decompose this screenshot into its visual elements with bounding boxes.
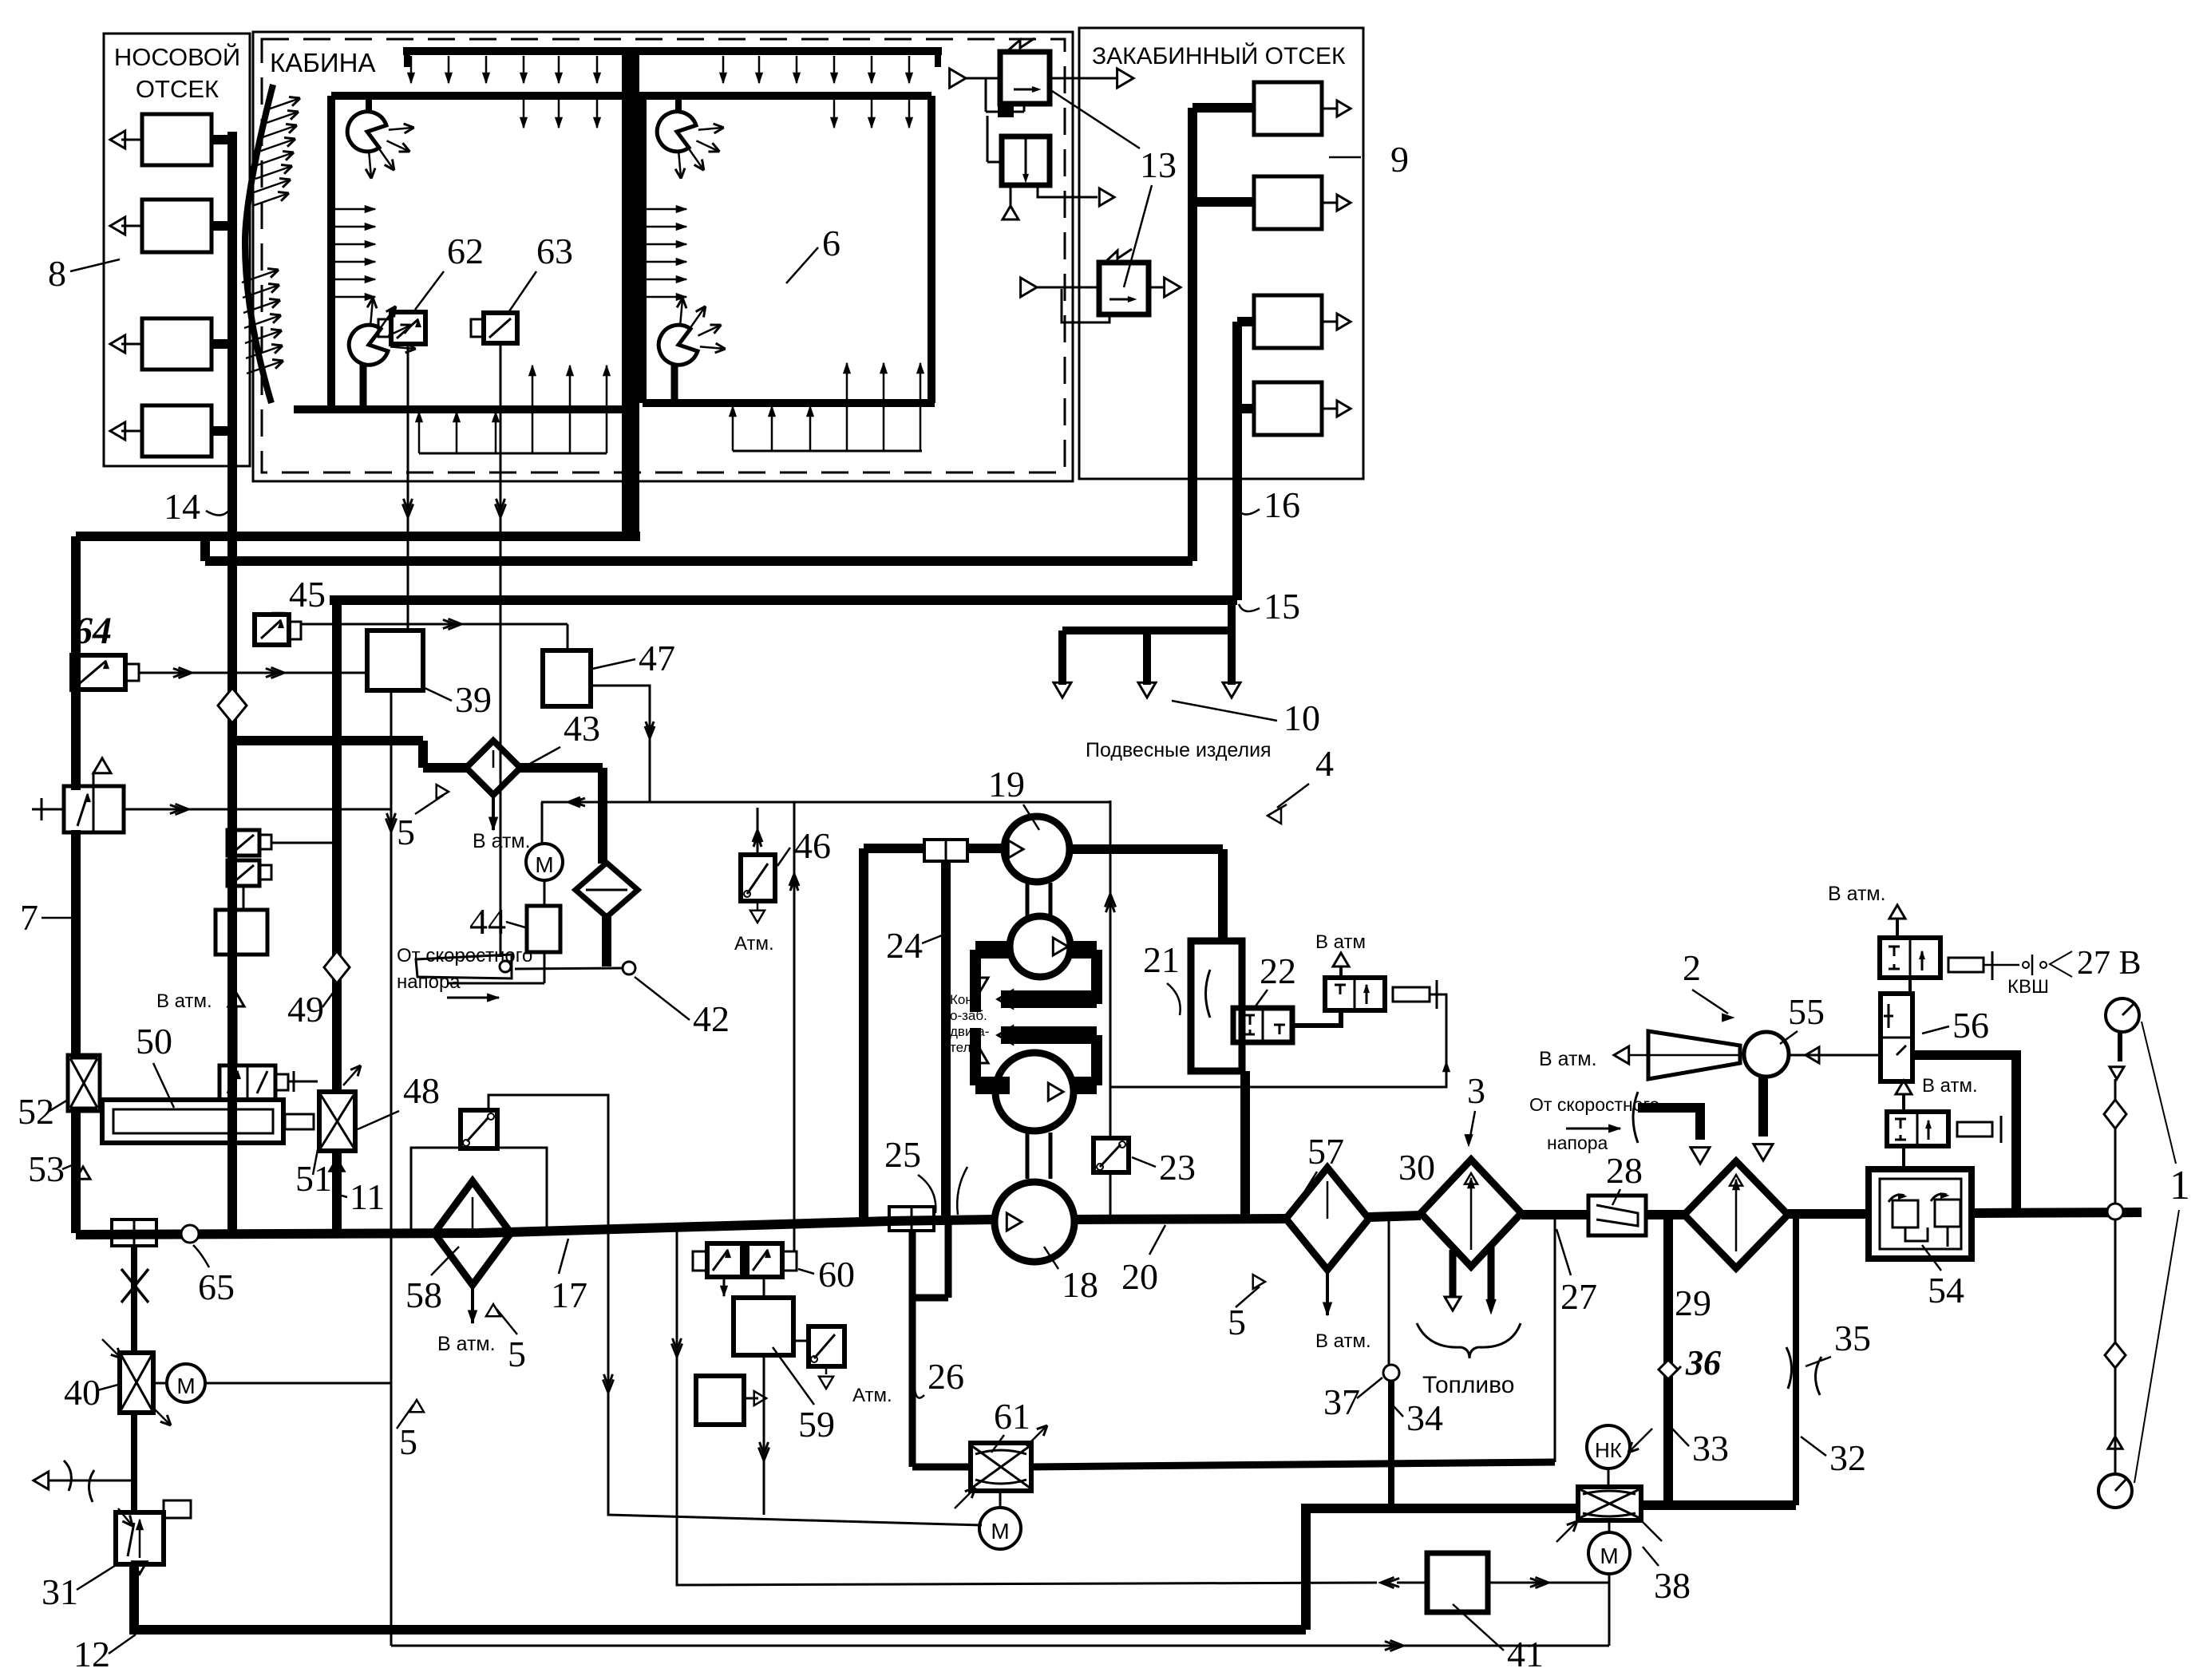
svg-text:41: 41: [1507, 1634, 1544, 1674]
svg-text:М: М: [991, 1519, 1009, 1544]
switch 23: [1094, 1138, 1129, 1172]
check valve node on bus: [218, 688, 247, 723]
svg-text:ЗАКАБИННЫЙ ОТСЕК: ЗАКАБИННЫЙ ОТСЕК: [1092, 42, 1346, 69]
main pipe 17: [76, 1219, 995, 1235]
wire to bus: [212, 135, 232, 144]
wire unit4 left loop: [859, 848, 868, 1223]
filter 57 diamond: [1286, 1168, 1369, 1270]
cabin zone solid border: [253, 32, 1073, 481]
rear consumer box 4: [1254, 382, 1322, 435]
svg-text:49: 49: [287, 989, 324, 1030]
windshield blow arrows upper: [263, 98, 300, 111]
svg-text:9: 9: [1390, 139, 1409, 180]
nose consumer box 3: [142, 318, 212, 370]
svg-text:60: 60: [818, 1254, 855, 1295]
wire valve54 down: [1902, 1146, 1905, 1169]
cabin top duct: [403, 47, 942, 55]
wire feedback bottom: [391, 1645, 1609, 1647]
valve7 pilot wire right: [124, 808, 391, 811]
fan top-left chamber2: [657, 112, 696, 152]
wire 26: [909, 1231, 916, 1467]
heat exchanger 50: [102, 1100, 283, 1143]
node 36: [1659, 1360, 1678, 1379]
turbine 18 circle: [995, 1182, 1074, 1262]
svg-text:2: 2: [1683, 947, 1701, 988]
junction node main: [2107, 1204, 2123, 1219]
svg-text:М: М: [176, 1374, 195, 1398]
valve 60 twin: [707, 1243, 742, 1277]
node 42 pivot2: [623, 962, 635, 974]
relief valve 13: [1099, 263, 1149, 314]
valve 62 cabin sensor: [391, 312, 425, 344]
svg-text:Атм.: Атм.: [852, 1385, 892, 1406]
svg-text:8: 8: [48, 253, 66, 294]
valve 22: [1233, 1008, 1292, 1042]
svg-text:40: 40: [64, 1372, 101, 1413]
svg-text:15: 15: [1264, 586, 1300, 627]
svg-text:7: 7: [20, 897, 38, 938]
svg-text:35: 35: [1834, 1318, 1871, 1358]
ejector 2: [1648, 1031, 1740, 1079]
wire to valve 61: [912, 1464, 971, 1471]
pilot wire 45 to 47: [301, 623, 568, 626]
svg-text:двига-: двига-: [950, 1024, 989, 1039]
svg-text:21: 21: [1143, 939, 1180, 980]
svg-text:КВШ: КВШ: [2007, 976, 2049, 998]
circle 55: [1744, 1032, 1789, 1077]
wire branch to valve60: [793, 802, 796, 1251]
svg-text:55: 55: [1788, 991, 1825, 1032]
valve 61: [971, 1443, 1031, 1491]
left cabin chamber walls: [331, 92, 625, 100]
vent 22: [1339, 967, 1343, 978]
feeder 16a vertical: [1188, 108, 1197, 561]
wire 40 down: [131, 1413, 137, 1512]
wire 62 down: [407, 344, 409, 630]
gauge top 1: [2106, 998, 2139, 1032]
wire L1 cabin collector: [76, 532, 640, 541]
svg-text:45: 45: [289, 574, 326, 615]
vent above 54: [1902, 1095, 1905, 1112]
underfloor rail chamber1: [419, 453, 607, 455]
svg-text:33: 33: [1692, 1428, 1729, 1469]
wire 56 to main: [1912, 1055, 2016, 1214]
wire 22 to relief: [1292, 1010, 1341, 1026]
svg-text:54: 54: [1928, 1270, 1964, 1310]
unit 41: [1427, 1553, 1488, 1612]
svg-text:23: 23: [1159, 1147, 1196, 1188]
unit 44: [544, 880, 546, 906]
svg-text:19: 19: [988, 764, 1025, 804]
wires 60 down: [723, 1279, 726, 1296]
svg-text:12: 12: [73, 1634, 110, 1674]
valve 13b: [1002, 136, 1050, 185]
motor M 38: [1608, 1520, 1611, 1532]
rear consumer box 2: [1254, 176, 1322, 229]
svg-text:напора: напора: [1547, 1133, 1608, 1153]
svg-text:5: 5: [1228, 1302, 1246, 1342]
svg-text:31: 31: [42, 1571, 78, 1612]
svg-text:47: 47: [639, 638, 675, 678]
svg-text:Атм.: Атм.: [734, 933, 774, 955]
svg-text:20: 20: [1121, 1256, 1158, 1297]
bleed duct lower: [1001, 1026, 1097, 1044]
svg-text:В атм.: В атм.: [473, 830, 531, 852]
svg-text:56: 56: [1952, 1005, 1989, 1046]
left wall inlet arrows chamber2: [644, 208, 686, 211]
svg-text:30: 30: [1398, 1147, 1435, 1188]
right cabin chamber walls: [636, 92, 931, 100]
bus 14 vertical: [227, 132, 237, 565]
svg-text:32: 32: [1829, 1437, 1866, 1478]
svg-text:10: 10: [1283, 698, 1320, 738]
pilot wire 22: [1110, 994, 1446, 1087]
fan circle c2: [1010, 916, 1070, 977]
wire 47 output: [593, 686, 650, 802]
svg-text:11: 11: [350, 1176, 385, 1217]
drain arrow 43: [492, 794, 495, 830]
vent above 56: [1896, 919, 1899, 938]
svg-text:Подвесные изделия: Подвесные изделия: [1086, 739, 1272, 761]
outlet arrow valve13: [1149, 287, 1164, 289]
condenser 29 diamond: [1684, 1161, 1788, 1268]
svg-text:53: 53: [28, 1148, 65, 1189]
one-way triangle 11: [332, 1151, 342, 1233]
svg-text:62: 62: [447, 231, 484, 271]
wire 14 bus down: [227, 565, 237, 1233]
wire 43 to cooler: [520, 763, 603, 773]
valve 63 cabin sensor: [484, 313, 517, 343]
svg-text:В атм.: В атм.: [1315, 1330, 1371, 1352]
svg-text:НОСОВОЙ: НОСОВОЙ: [114, 42, 240, 71]
svg-text:37: 37: [1323, 1382, 1360, 1422]
inlet arrow valve13: [1021, 278, 1037, 297]
sensor НК: [1587, 1425, 1630, 1469]
wire 61 right: [1031, 1462, 1555, 1467]
wire 26 upper: [945, 1219, 952, 1298]
connector 54: [1957, 1122, 1992, 1136]
svg-text:22: 22: [1260, 951, 1296, 991]
filter cooler diamond: [575, 863, 638, 917]
svg-text:43: 43: [564, 708, 600, 749]
valve 45: [255, 615, 289, 645]
outlet arrow 13a: [1050, 77, 1117, 80]
unit under switches: [216, 910, 267, 955]
wire 59 down: [763, 1355, 765, 1515]
svg-text:Конд: Конд: [950, 992, 981, 1007]
svg-text:14: 14: [164, 486, 200, 527]
fuel tank walls: [1388, 1219, 1390, 1365]
rear consumer box 1: [1254, 82, 1322, 135]
svg-text:44: 44: [469, 901, 506, 942]
wire 21 out: [1240, 1071, 1250, 1218]
valve 56: [1881, 994, 1912, 1081]
vent arrow В атм: [235, 1007, 238, 1065]
svg-text:В атм.: В атм.: [1539, 1048, 1597, 1070]
wire ejector down to 29: [1758, 1077, 1768, 1136]
svg-text:теля: теля: [950, 1040, 979, 1055]
vent valve 50a: [220, 1065, 275, 1100]
nose consumer box 1: [142, 114, 212, 165]
svg-text:3: 3: [1467, 1070, 1485, 1111]
wire 39 control down: [390, 690, 393, 1646]
inlet arrow 13a: [950, 69, 966, 88]
svg-text:КАБИНА: КАБИНА: [270, 48, 375, 77]
node 65: [181, 1225, 199, 1243]
bypass valve over 58: [411, 1148, 461, 1233]
node 37: [1383, 1365, 1399, 1381]
svg-text:59: 59: [798, 1404, 835, 1445]
wire pilot 58 to motor61: [488, 1095, 982, 1525]
compressor 19 circle: [1004, 816, 1070, 882]
drain triangle 46: [757, 901, 759, 910]
svg-text:61: 61: [994, 1396, 1030, 1437]
svg-text:В атм.: В атм.: [437, 1333, 496, 1355]
wire loop top line: [541, 801, 1110, 804]
relief valve above 22: [1325, 978, 1385, 1010]
svg-text:29: 29: [1675, 1283, 1711, 1323]
wire to bus: [212, 339, 232, 349]
svg-text:1: 1: [2169, 1163, 2190, 1208]
restrictor 28: [1588, 1196, 1646, 1235]
ejector vent: [1628, 1054, 1648, 1057]
svg-text:24: 24: [886, 925, 923, 966]
svg-text:о-заб.: о-заб.: [950, 1008, 987, 1023]
svg-text:65: 65: [198, 1267, 235, 1307]
svg-text:НК: НК: [1595, 1438, 1622, 1462]
valve 64: [72, 655, 125, 690]
wire 41 left: [677, 1582, 1377, 1583]
svg-text:4: 4: [1315, 743, 1334, 784]
switch wires: [271, 842, 337, 844]
svg-text:58: 58: [405, 1275, 442, 1315]
wire 63 down: [500, 343, 502, 956]
feeder 16b vertical: [1232, 322, 1242, 600]
rear compartment box ЗАКАБИННЫЙ ОТСЕК: [1079, 28, 1363, 479]
vent 46: [757, 808, 759, 855]
wire 33: [1663, 1216, 1673, 1505]
svg-text:27 В: 27 В: [2077, 945, 2142, 982]
wire 24 vertical: [941, 861, 951, 1219]
svg-text:39: 39: [455, 679, 492, 720]
wire to bus: [212, 221, 232, 231]
drain 57: [1326, 1270, 1329, 1315]
triangle node: [2108, 1437, 2122, 1449]
drain triangle 53: [71, 1111, 81, 1233]
svg-text:13: 13: [1140, 144, 1177, 185]
wire 23 vertical: [1109, 800, 1112, 1138]
wire link 42: [515, 968, 623, 969]
valve13 pilot loop: [1062, 289, 1109, 322]
svg-text:5: 5: [399, 1421, 417, 1462]
svg-text:17: 17: [551, 1275, 587, 1315]
svg-text:25: 25: [884, 1134, 921, 1175]
svg-text:18: 18: [1062, 1264, 1098, 1305]
unit 39: [367, 630, 423, 690]
fuel arrows 30: [1450, 1250, 1457, 1297]
pressure switch 49b: [227, 860, 259, 886]
svg-text:В атм.: В атм.: [156, 990, 212, 1012]
drain triangle 13b: [1010, 185, 1012, 206]
damper 42: [416, 955, 512, 978]
wire cooler down: [602, 917, 611, 966]
valve 40 fan: [120, 1353, 153, 1413]
motor M 44: [526, 844, 563, 880]
wire main to compressor 19: [967, 844, 1004, 853]
wire M44 up: [541, 802, 544, 844]
wire L3 line 15: [330, 595, 1237, 605]
wire M38 down: [1608, 1574, 1611, 1646]
connector 27V: [1948, 958, 1984, 972]
pilot wire 64 to 39: [139, 672, 367, 674]
svg-text:64: 64: [73, 610, 112, 652]
wire 44 down: [544, 952, 546, 983]
outlet 13b: [1038, 185, 1098, 197]
wire 41 right: [1488, 1582, 1609, 1584]
wire 38 to 32: [1641, 1500, 1796, 1510]
nose consumer box 4: [142, 405, 212, 457]
fan stem2: [675, 96, 682, 113]
wire receiver arrow: [744, 1397, 758, 1400]
check node b: [2105, 1342, 2126, 1368]
valve7 left plug: [32, 808, 64, 811]
wire 60 to 41: [677, 1231, 1377, 1585]
drain triangle 59: [825, 1366, 828, 1374]
outflow left: [48, 1480, 134, 1482]
wire 12 up corner right: [1306, 1508, 1578, 1630]
pressure switch pair 49a: [227, 830, 259, 856]
cabin zone dashed border: [262, 39, 1065, 472]
filter 43 diamond: [466, 741, 520, 795]
svg-text:46: 46: [794, 825, 831, 866]
svg-text:26: 26: [927, 1356, 964, 1397]
bleed duct upper: [975, 941, 1010, 959]
rear consumer box 3: [1254, 295, 1322, 348]
receiver box 59: [696, 1376, 744, 1425]
suspended items line 10: [1228, 600, 1236, 630]
relief triangle valve7: [93, 772, 95, 786]
turbine circle c3: [995, 1053, 1074, 1131]
wire to bus: [212, 426, 232, 436]
svg-text:В атм.: В атм.: [1922, 1075, 1978, 1097]
valve 31: [116, 1512, 164, 1564]
svg-text:В атм.: В атм.: [1828, 883, 1886, 905]
wire 12 corner: [134, 1564, 1306, 1630]
svg-text:36: 36: [1685, 1343, 1721, 1382]
nose compartment box НОСОВОЙ ОТСЕК: [104, 34, 250, 466]
left wall inlet arrows chamber1: [333, 208, 375, 211]
pressure regulator 13a: [1000, 52, 1050, 104]
fuel brace: [1417, 1323, 1461, 1347]
svg-text:34: 34: [1406, 1397, 1443, 1438]
valve 7 assembly: [64, 786, 124, 832]
fan stem1: [366, 96, 372, 113]
check node a: [2104, 1100, 2126, 1129]
wire gauge column: [2118, 1032, 2122, 1061]
filter 58 diamond: [434, 1181, 511, 1285]
valve 46: [741, 855, 775, 901]
svg-text:51: 51: [295, 1158, 332, 1199]
check node 49: [324, 951, 350, 983]
ceiling arrows inside chambers: [523, 97, 525, 128]
svg-text:38: 38: [1654, 1565, 1691, 1606]
drain arrow 58: [471, 1285, 474, 1323]
fan bottom-left chamber2: [659, 325, 698, 365]
motor M 40: [153, 1382, 167, 1385]
fan top-left chamber1: [347, 112, 386, 152]
pilot loop 13a: [985, 78, 987, 112]
wire 55 right: [1789, 1054, 1881, 1057]
coupling 19-c2: [1026, 883, 1030, 916]
valve 48 fan: [319, 1092, 355, 1151]
svg-text:М: М: [535, 852, 553, 877]
wire unit4 right down: [1218, 849, 1228, 941]
svg-text:В атм: В атм: [1315, 931, 1366, 953]
ejector 52: [68, 1055, 100, 1111]
underfloor rail chamber2: [733, 450, 922, 453]
motor M 61: [999, 1491, 1002, 1508]
svg-text:27: 27: [1560, 1276, 1597, 1317]
windshield glass: [245, 85, 273, 403]
svg-text:6: 6: [822, 223, 840, 263]
svg-text:16: 16: [1264, 484, 1300, 525]
divider column: [622, 51, 639, 536]
coupling upper: [924, 840, 967, 861]
wire 19 right: [1070, 844, 1223, 854]
duct down arrows: [410, 56, 413, 83]
fuel line 34: [1388, 1381, 1394, 1508]
coupling 25 on main: [889, 1207, 934, 1231]
unit 59 box: [734, 1298, 793, 1355]
nose consumer box 2: [142, 200, 212, 252]
svg-text:50: 50: [136, 1021, 172, 1061]
shutoff X on column: [131, 1246, 137, 1353]
crossing marks 35: [1786, 1347, 1792, 1389]
valve Атм 59: [809, 1326, 844, 1366]
thermo sensor on main line: [112, 1219, 156, 1246]
pressure box 54: [1869, 1169, 1972, 1259]
svg-text:42: 42: [693, 998, 730, 1039]
svg-text:ОТСЕК: ОТСЕК: [136, 75, 219, 103]
wire motor40 to control: [205, 1382, 391, 1385]
svg-text:48: 48: [403, 1070, 440, 1111]
svg-text:Топливо: Топливо: [1422, 1372, 1514, 1398]
windshield blow arrows lower: [242, 270, 279, 283]
valve above 56: [1880, 938, 1940, 978]
svg-text:63: 63: [536, 231, 573, 271]
wire bus to filter 43: [232, 736, 423, 745]
coupling c3-18: [1026, 1133, 1030, 1179]
fan bottom-left chamber1: [349, 325, 388, 365]
connector 22: [1393, 987, 1430, 1002]
wire 32: [1793, 1216, 1799, 1505]
wire L3 column down: [332, 600, 342, 1092]
wire 7 left vertical: [71, 536, 81, 790]
svg-text:52: 52: [18, 1091, 54, 1132]
svg-text:5: 5: [508, 1334, 526, 1374]
svg-text:5: 5: [397, 812, 415, 852]
svg-text:М: М: [1600, 1544, 1618, 1568]
unit 47: [543, 650, 591, 706]
svg-text:57: 57: [1307, 1131, 1344, 1172]
valve 38: [1578, 1487, 1641, 1520]
wire L2 line to rear compartment: [205, 556, 1192, 566]
valve above 54: [1887, 1112, 1948, 1146]
heater 30 diamond: [1421, 1160, 1521, 1267]
gauge bottom 1: [2098, 1474, 2132, 1508]
tank 21: [1191, 941, 1242, 1071]
wire napor to 29: [1638, 1108, 1700, 1140]
